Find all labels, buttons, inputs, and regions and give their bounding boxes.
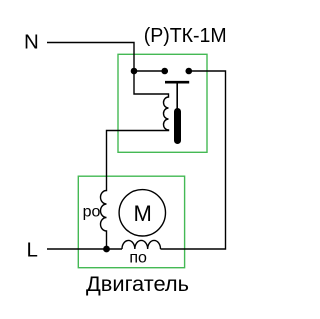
wire pin1 to pin2 (fixed contact) <box>134 70 168 72</box>
relay box (Р)ТК-1М <box>118 54 207 152</box>
svg-text:L: L <box>27 238 38 261</box>
solenoid plunger <box>174 112 181 141</box>
svg-text:по: по <box>129 250 147 267</box>
motor M circle <box>119 190 165 236</box>
svg-text:М: М <box>134 201 152 226</box>
svg-text:ро: ро <box>83 203 101 220</box>
svg-text:N: N <box>24 30 39 53</box>
wire L to junction <box>47 248 122 250</box>
svg-text:(Р)ТК-1М: (Р)ТК-1М <box>144 25 227 47</box>
wire N to relay pin 1 <box>47 43 134 72</box>
node pin1 <box>131 68 138 75</box>
junction node L/start/run <box>103 246 110 253</box>
contact stem <box>176 82 178 114</box>
relay coil and wire to start winding <box>101 71 169 249</box>
run winding по <box>122 240 161 249</box>
wire pin3 to right rail down to run winding <box>161 71 226 249</box>
node pin3 <box>186 68 193 75</box>
motor box <box>78 176 184 268</box>
contact bridge bar <box>165 81 189 84</box>
node pin2 <box>161 68 168 75</box>
svg-text:Двигатель: Двигатель <box>86 273 189 296</box>
